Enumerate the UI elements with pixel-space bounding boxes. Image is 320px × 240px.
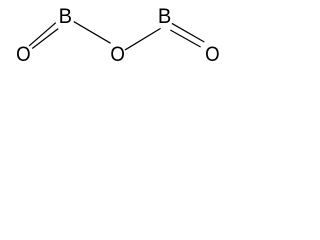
- svg-text:B: B: [158, 5, 171, 29]
- double bond O1=B1 line lower: [32, 29, 58, 49]
- double bond O1=B1 line upper: [29, 23, 56, 46]
- svg-text:B: B: [59, 5, 72, 29]
- svg-text:O: O: [16, 43, 31, 66]
- single bond B1-O2: [74, 22, 111, 44]
- svg-text:O: O: [110, 43, 125, 66]
- double bond B2=O3 line lower: [170, 30, 200, 47]
- single bond O2-B2: [125, 28, 161, 50]
- svg-text:O: O: [205, 43, 220, 66]
- double bond B2=O3 line upper: [172, 23, 204, 42]
